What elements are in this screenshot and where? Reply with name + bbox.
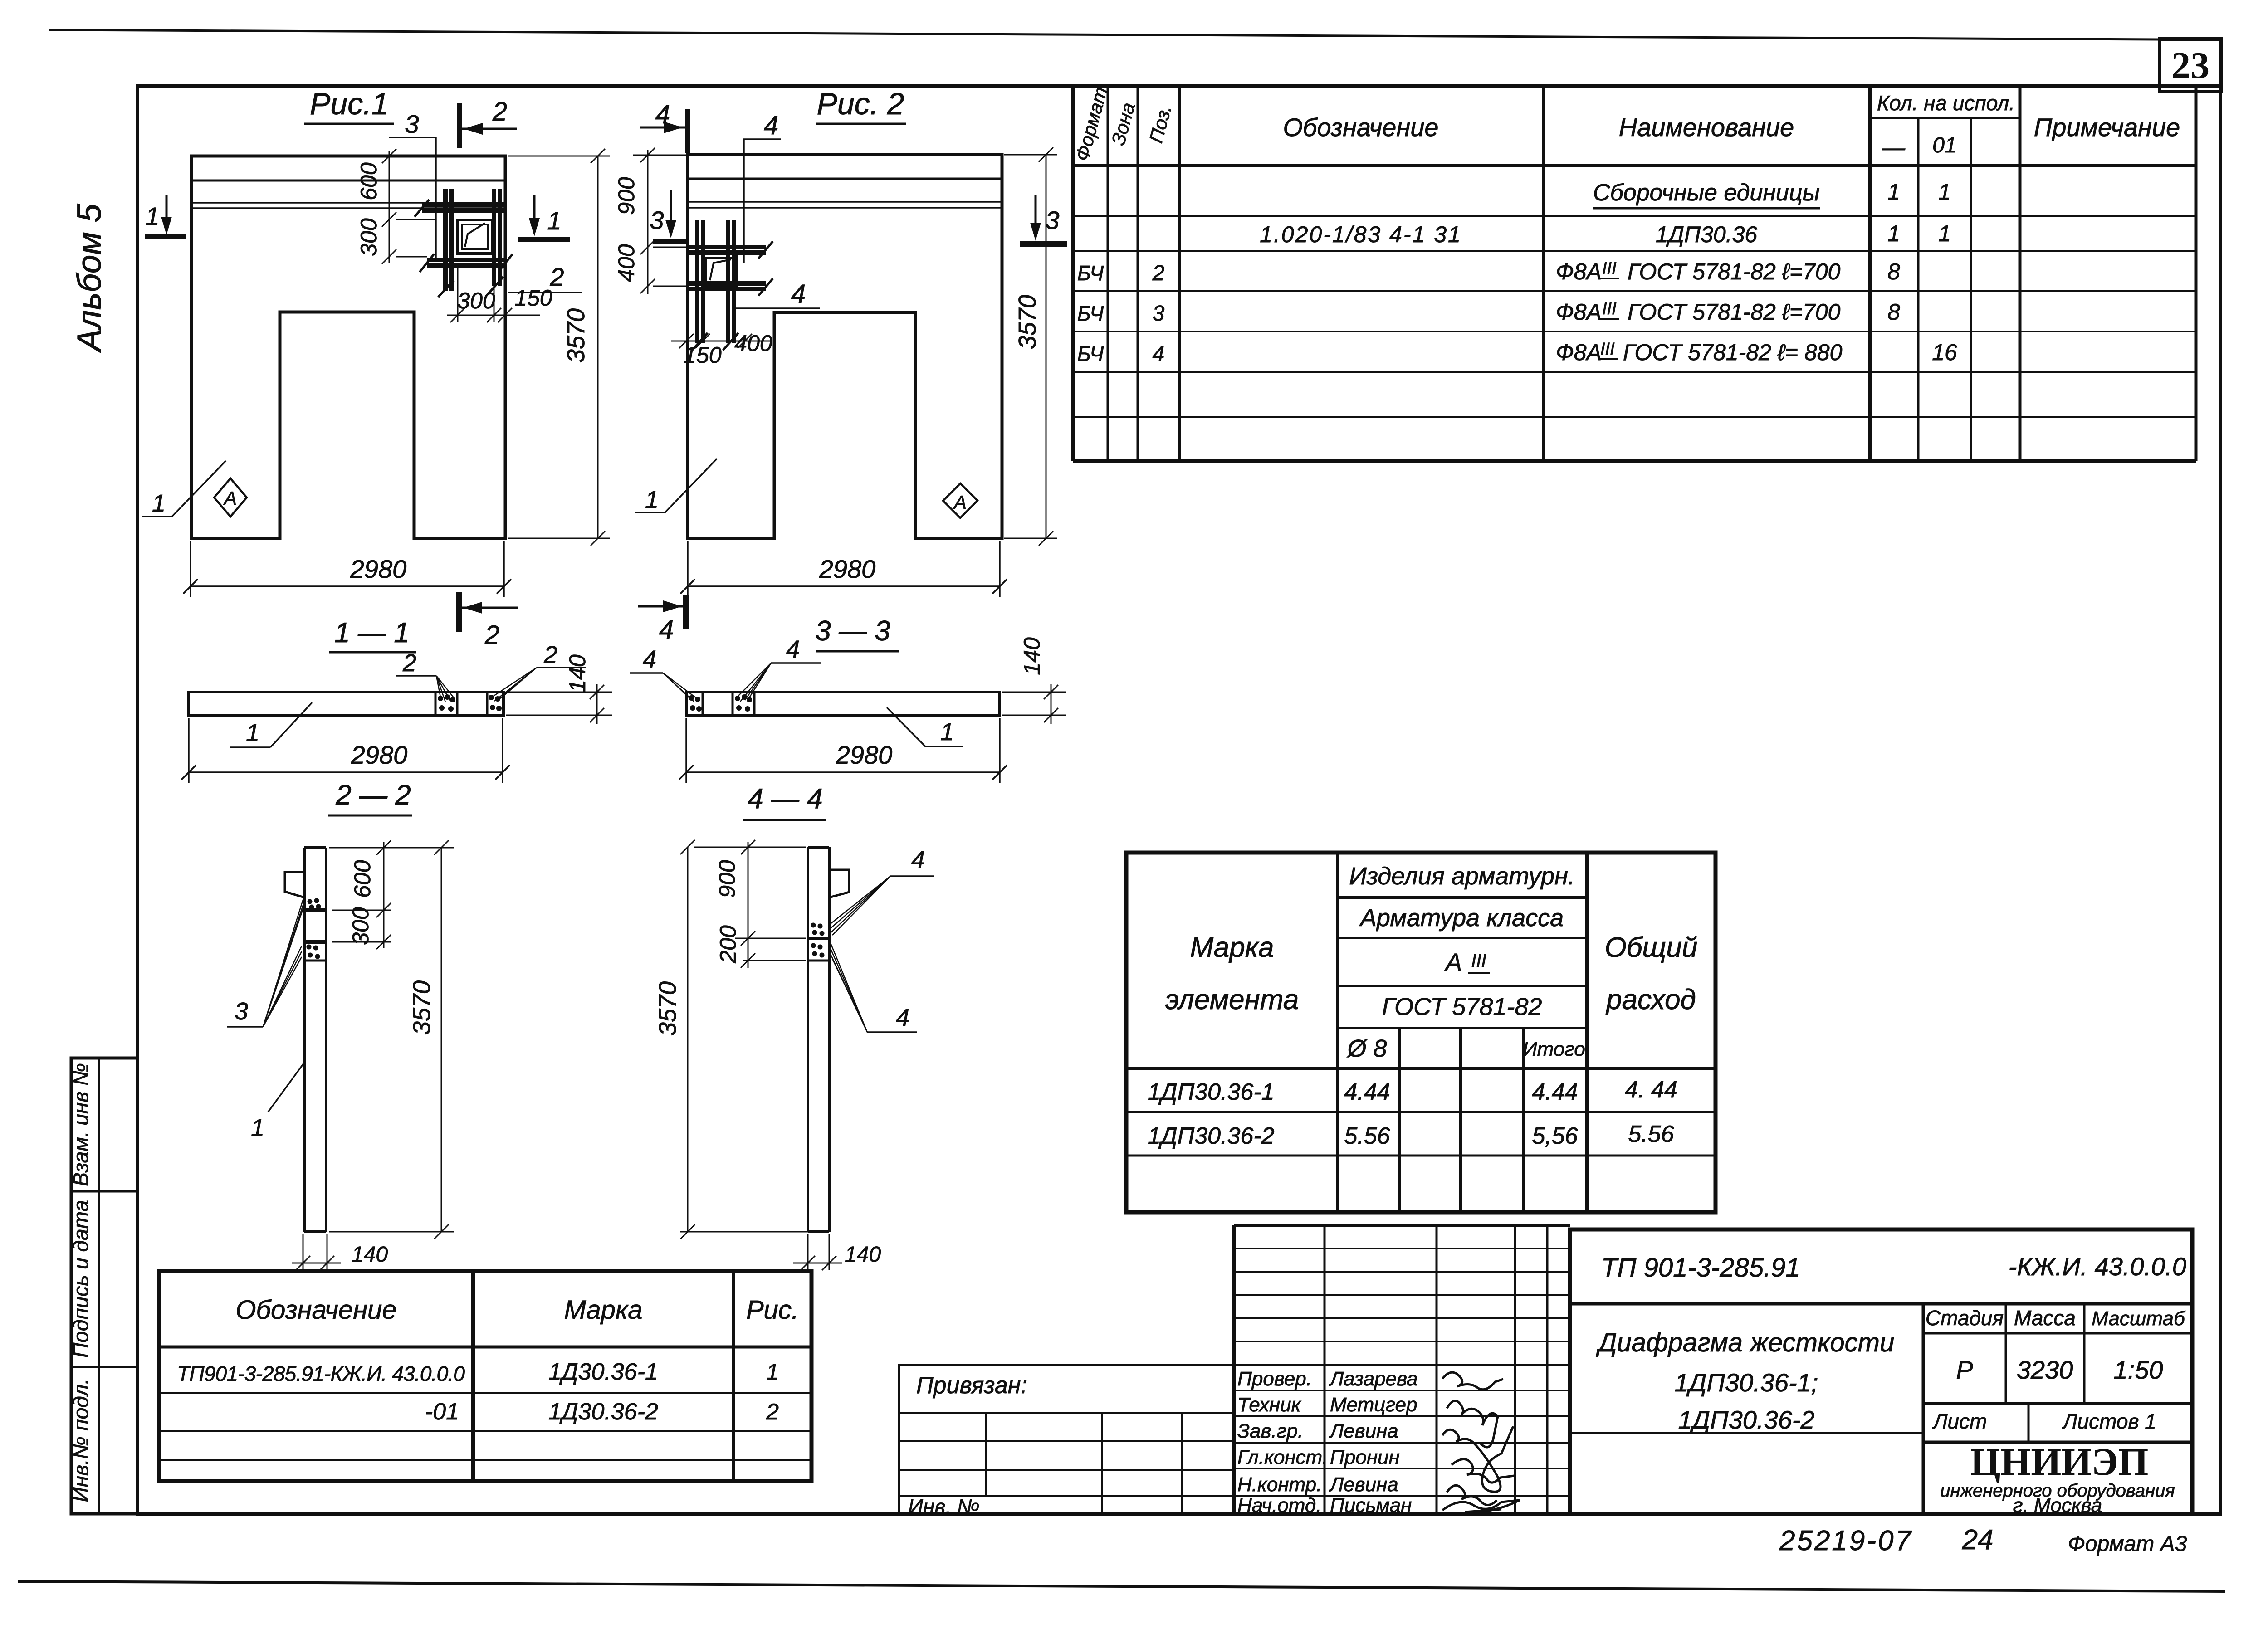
svg-text:2: 2 xyxy=(766,1399,779,1424)
panel 1 leader 2 lower xyxy=(508,292,582,293)
left stamp column box xyxy=(71,1058,137,1514)
svg-text:Пронин: Пронин xyxy=(1330,1446,1400,1468)
svg-text:4: 4 xyxy=(786,636,800,663)
section 4-4 dim 3570 xyxy=(680,840,812,1239)
svg-text:25219-07: 25219-07 xyxy=(1779,1525,1913,1556)
svg-text:Наименование: Наименование xyxy=(1619,113,1794,141)
privyazan box xyxy=(899,1365,1234,1514)
svg-text:Ø 8: Ø 8 xyxy=(1346,1035,1387,1062)
svg-text:Нач.отд.: Нач.отд. xyxy=(1237,1494,1321,1517)
svg-text:Левина: Левина xyxy=(1329,1420,1398,1442)
svg-text:-КЖ.И. 43.0.0.0: -КЖ.И. 43.0.0.0 xyxy=(2009,1252,2186,1281)
panel 2 leader 4 lower xyxy=(734,307,820,309)
svg-text:1.020-1/83 4-1 31: 1.020-1/83 4-1 31 xyxy=(1260,222,1462,247)
svg-text:23: 23 xyxy=(2171,44,2209,87)
bottom paper edge line xyxy=(18,1581,2225,1591)
svg-text:Левина: Левина xyxy=(1329,1473,1398,1496)
reinforcement summary table xyxy=(1126,853,1716,1212)
section 4-4 dims 900/200 xyxy=(694,840,806,968)
svg-text:4 — 4: 4 — 4 xyxy=(748,783,822,815)
panel 2 band lines xyxy=(688,178,1002,180)
svg-text:3 — 3: 3 — 3 xyxy=(815,615,890,647)
svg-text:Р: Р xyxy=(1956,1356,1973,1384)
section 2-2 rebar zones xyxy=(304,908,326,912)
section 1-1 strip xyxy=(189,692,503,715)
svg-text:Провер.: Провер. xyxy=(1237,1368,1312,1390)
panel 1 leader 3 xyxy=(389,137,436,262)
svg-text:1: 1 xyxy=(766,1359,779,1385)
svg-text:Взам. инв №: Взам. инв № xyxy=(69,1063,93,1186)
section 2-2 column xyxy=(304,848,326,1232)
svg-text:БЧ: БЧ xyxy=(1077,261,1104,285)
svg-text:2: 2 xyxy=(402,649,416,677)
svg-text:Инв. №: Инв. № xyxy=(908,1495,980,1518)
svg-text:400: 400 xyxy=(614,244,639,282)
svg-text:2: 2 xyxy=(549,263,564,291)
svg-text:ГОСТ 5781-82 ℓ=700: ГОСТ 5781-82 ℓ=700 xyxy=(1628,299,1841,325)
svg-text:900: 900 xyxy=(714,860,740,898)
svg-text:Лист: Лист xyxy=(1932,1410,1987,1433)
svg-text:3: 3 xyxy=(405,110,419,138)
svg-text:600: 600 xyxy=(350,860,375,898)
svg-text:ТП 901-3-285.91: ТП 901-3-285.91 xyxy=(1601,1253,1800,1283)
specification table top right xyxy=(1073,86,2196,461)
svg-text:1:50: 1:50 xyxy=(2114,1356,2163,1384)
panel 1 outline xyxy=(191,156,505,538)
svg-text:8: 8 xyxy=(1887,259,1900,284)
section 3-3 dim 2980 xyxy=(679,718,1007,783)
section 1-1 dim 2980 xyxy=(181,718,510,783)
section 3-3 dim 140 xyxy=(1002,684,1066,724)
panel 2 left dims 900/400 xyxy=(633,148,689,294)
svg-text:5.56: 5.56 xyxy=(1344,1123,1390,1149)
svg-text:4: 4 xyxy=(896,1004,909,1031)
svg-text:Рис.: Рис. xyxy=(746,1295,799,1325)
svg-text:Гл.конст.: Гл.конст. xyxy=(1237,1446,1328,1468)
svg-text:600: 600 xyxy=(356,162,381,200)
svg-text:300: 300 xyxy=(457,288,495,313)
svg-text:Н.контр.: Н.контр. xyxy=(1237,1473,1322,1496)
svg-text:ГОСТ 5781-82 ℓ= 880: ГОСТ 5781-82 ℓ= 880 xyxy=(1623,340,1843,365)
panel 1 left dims 600/300 xyxy=(382,149,436,264)
svg-text:1: 1 xyxy=(645,486,659,513)
svg-text:Лазарева: Лазарева xyxy=(1329,1368,1418,1390)
svg-text:Ф8А: Ф8А xyxy=(1556,340,1602,365)
svg-text:2: 2 xyxy=(1152,261,1165,285)
svg-text:1: 1 xyxy=(246,719,259,746)
panel 2 outline xyxy=(688,155,1002,538)
svg-text:3570: 3570 xyxy=(562,308,590,363)
section 2-2 dims 600/300 xyxy=(329,840,454,949)
svg-text:ЦНИИЭП: ЦНИИЭП xyxy=(1970,1440,2149,1483)
section 2-2 step notch xyxy=(285,872,304,897)
panel 2 dim 2980 xyxy=(680,541,1007,597)
panel 1 dim 3570 xyxy=(508,149,610,546)
panel 2 corner rebar bars item 4 xyxy=(689,220,766,343)
section 4-4 column xyxy=(808,847,829,1232)
svg-text:III: III xyxy=(1602,299,1617,318)
svg-text:1: 1 xyxy=(145,202,159,230)
svg-text:Стадия: Стадия xyxy=(1926,1306,2004,1330)
section 4-4 dim 140 xyxy=(793,1234,842,1270)
svg-text:150: 150 xyxy=(684,342,722,368)
svg-text:300: 300 xyxy=(348,907,373,945)
panel 2 corner dims 150/400 xyxy=(671,334,771,348)
svg-text:А: А xyxy=(1444,949,1462,976)
svg-text:4: 4 xyxy=(764,111,778,140)
svg-text:1: 1 xyxy=(547,206,561,235)
svg-text:Ф8А: Ф8А xyxy=(1556,259,1602,284)
svg-text:ГОСТ 5781-82 ℓ=700: ГОСТ 5781-82 ℓ=700 xyxy=(1628,259,1841,284)
svg-text:Сборочные единицы: Сборочные единицы xyxy=(1593,180,1820,206)
panel 2 rebar end slashes xyxy=(692,241,773,350)
svg-text:1ДП30.36-1;: 1ДП30.36-1; xyxy=(1675,1368,1818,1397)
svg-text:1: 1 xyxy=(1887,179,1900,205)
svg-text:3: 3 xyxy=(650,206,664,234)
svg-text:4: 4 xyxy=(1153,342,1165,366)
svg-text:1ДП30.36-2: 1ДП30.36-2 xyxy=(1148,1123,1275,1149)
svg-text:1: 1 xyxy=(1887,221,1900,246)
panel 1 stirrup square xyxy=(458,220,492,254)
svg-text:5,56: 5,56 xyxy=(1532,1123,1578,1149)
svg-text:2980: 2980 xyxy=(350,555,407,583)
top thin scan line xyxy=(49,30,2160,39)
svg-text:Кол. на испол.: Кол. на испол. xyxy=(1877,91,2015,115)
svg-text:200: 200 xyxy=(715,925,741,964)
svg-text:ГОСТ 5781-82: ГОСТ 5781-82 xyxy=(1382,993,1542,1020)
svg-text:Масса: Масса xyxy=(2014,1306,2076,1330)
svg-text:4.44: 4.44 xyxy=(1532,1079,1578,1105)
svg-text:4.44: 4.44 xyxy=(1344,1079,1390,1105)
section 3-3 rebar dots xyxy=(689,694,752,712)
svg-text:1Д30.36-1: 1Д30.36-1 xyxy=(548,1359,658,1385)
svg-text:5.56: 5.56 xyxy=(1628,1121,1674,1147)
svg-text:А: А xyxy=(223,488,237,509)
svg-text:Привязан:: Привязан: xyxy=(916,1372,1027,1399)
section 2-2 dim 140 xyxy=(292,1234,341,1270)
svg-text:400: 400 xyxy=(734,331,772,356)
svg-text:III: III xyxy=(1602,259,1617,278)
svg-text:Масштаб: Масштаб xyxy=(2092,1307,2186,1330)
svg-text:300: 300 xyxy=(356,218,381,256)
svg-text:БЧ: БЧ xyxy=(1077,302,1104,325)
svg-text:4: 4 xyxy=(643,646,656,673)
svg-text:БЧ: БЧ xyxy=(1077,342,1104,366)
svg-text:Метцгер: Метцгер xyxy=(1330,1394,1417,1416)
section 4-4 rebar zones xyxy=(808,937,829,940)
section mark 4 bottom of panel 2 xyxy=(683,595,689,629)
svg-text:расход: расход xyxy=(1605,984,1696,1015)
svg-text:4: 4 xyxy=(791,279,806,309)
svg-text:1 — 1: 1 — 1 xyxy=(334,617,409,649)
section 3-3 strip xyxy=(686,692,1000,715)
svg-text:140: 140 xyxy=(845,1243,881,1267)
svg-text:Марка: Марка xyxy=(564,1295,642,1325)
svg-text:3570: 3570 xyxy=(408,980,435,1035)
svg-text:А: А xyxy=(953,492,967,513)
svg-text:1ДП30.36: 1ДП30.36 xyxy=(1656,222,1758,247)
svg-text:01: 01 xyxy=(1932,133,1956,157)
svg-text:Техник: Техник xyxy=(1237,1394,1302,1416)
svg-text:1: 1 xyxy=(1938,179,1951,205)
svg-text:Инв.№ подл.: Инв.№ подл. xyxy=(69,1379,93,1502)
panel 2 stirrup square xyxy=(703,254,737,287)
svg-text:1Д30.36-2: 1Д30.36-2 xyxy=(548,1399,658,1425)
svg-text:элемента: элемента xyxy=(1165,984,1299,1015)
svg-text:2 — 2: 2 — 2 xyxy=(335,780,411,811)
panel 2 dim 3570 xyxy=(1004,147,1057,546)
panel 1 band lines xyxy=(191,180,505,182)
svg-text:140: 140 xyxy=(352,1243,388,1267)
svg-text:1: 1 xyxy=(1938,221,1951,246)
svg-text:Подпись и дата: Подпись и дата xyxy=(69,1200,93,1358)
svg-text:24: 24 xyxy=(1962,1524,1994,1556)
svg-text:Марка: Марка xyxy=(1190,932,1274,963)
svg-text:III: III xyxy=(1471,951,1486,971)
svg-text:1: 1 xyxy=(152,490,166,517)
svg-text:Общий: Общий xyxy=(1605,932,1698,963)
svg-text:3570: 3570 xyxy=(1014,295,1041,349)
svg-text:Рис. 2: Рис. 2 xyxy=(817,87,904,121)
svg-text:Формат А3: Формат А3 xyxy=(2068,1532,2187,1556)
signatures squiggles xyxy=(1442,1372,1520,1512)
svg-text:8: 8 xyxy=(1887,299,1900,325)
section mark 2 bottom xyxy=(456,592,462,632)
svg-text:2980: 2980 xyxy=(819,555,876,583)
section 2-2 dim 3570 xyxy=(329,840,454,1239)
sheet number box xyxy=(2160,39,2221,92)
svg-text:4: 4 xyxy=(659,615,674,644)
svg-text:140: 140 xyxy=(565,654,590,693)
svg-text:4: 4 xyxy=(911,846,925,873)
panel 1 corner rebar: long bars item 2 xyxy=(422,189,507,291)
svg-text:3230: 3230 xyxy=(2017,1356,2073,1384)
svg-text:г. Москва: г. Москва xyxy=(2013,1494,2102,1517)
svg-text:2: 2 xyxy=(484,620,499,650)
svg-text:1: 1 xyxy=(251,1114,264,1141)
signature table xyxy=(1234,1225,1570,1514)
svg-text:Рис.1: Рис.1 xyxy=(310,87,389,121)
svg-text:140: 140 xyxy=(1019,637,1045,675)
svg-text:3: 3 xyxy=(1045,206,1059,234)
svg-text:—: — xyxy=(1882,135,1906,160)
svg-text:2980: 2980 xyxy=(351,741,408,769)
svg-text:16: 16 xyxy=(1932,340,1957,365)
svg-text:Обозначение: Обозначение xyxy=(235,1295,396,1325)
svg-text:150: 150 xyxy=(514,285,552,311)
title block frame xyxy=(1570,1229,2192,1514)
section 1-1 dim 140 xyxy=(506,684,612,724)
svg-text:Изделия арматурн.: Изделия арматурн. xyxy=(1349,863,1575,890)
svg-text:Листов 1: Листов 1 xyxy=(2062,1410,2156,1433)
svg-text:Ф8А: Ф8А xyxy=(1556,299,1602,325)
svg-text:3: 3 xyxy=(235,998,248,1025)
svg-text:3: 3 xyxy=(1153,302,1165,326)
svg-text:900: 900 xyxy=(614,177,639,215)
svg-text:Альбом 5: Альбом 5 xyxy=(70,204,108,353)
panel 1 dim 2980 xyxy=(183,541,511,597)
svg-text:2: 2 xyxy=(492,97,507,127)
svg-text:Зав.гр.: Зав.гр. xyxy=(1237,1420,1303,1442)
svg-text:1ДП30.36-2: 1ДП30.36-2 xyxy=(1678,1405,1814,1434)
section mark 2 top xyxy=(457,103,462,148)
svg-text:Диафрагма жесткости: Диафрагма жесткости xyxy=(1596,1328,1894,1357)
svg-text:Итого: Итого xyxy=(1523,1038,1585,1060)
svg-text:2980: 2980 xyxy=(836,741,893,769)
section 4-4 step notch xyxy=(829,870,849,897)
svg-text:ТП901-3-285.91-КЖ.И. 43.0.0.0: ТП901-3-285.91-КЖ.И. 43.0.0.0 xyxy=(177,1362,465,1385)
svg-text:Письман: Письман xyxy=(1330,1494,1412,1517)
svg-text:Примечание: Примечание xyxy=(2034,113,2180,141)
svg-text:2: 2 xyxy=(543,641,557,668)
panel 1 rebar end slashes xyxy=(415,200,513,297)
svg-text:4. 44: 4. 44 xyxy=(1625,1077,1677,1103)
svg-text:Арматура класса: Арматура класса xyxy=(1359,904,1564,932)
svg-text:III: III xyxy=(1600,340,1615,359)
panel 1 corner dims 300/150 xyxy=(447,267,540,322)
svg-text:1ДП30.36-1: 1ДП30.36-1 xyxy=(1148,1079,1275,1105)
svg-text:-01: -01 xyxy=(425,1399,459,1425)
svg-text:Обозначение: Обозначение xyxy=(1283,113,1438,141)
section 1-1 rebar dots xyxy=(438,694,502,712)
bottom-left marks table xyxy=(159,1271,811,1481)
svg-text:3570: 3570 xyxy=(654,981,681,1036)
svg-text:1: 1 xyxy=(940,718,954,746)
